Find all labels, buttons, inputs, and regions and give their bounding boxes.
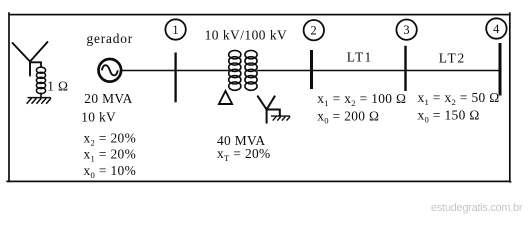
bus 2 [310,50,313,89]
wye symbol (secondary winding) [258,96,280,122]
grounding reactor coil (1 ohm) [36,67,45,94]
svg-text:estudegratis.com.br: estudegratis.com.br [431,202,523,214]
label x0 = 200 ohm (LT1) [317,108,379,125]
line LT1 wire [312,70,406,72]
svg-text:10 kV/100 kV: 10 kV/100 kV [205,28,288,43]
ground (generator neutral) [27,98,51,104]
svg-text:4: 4 [493,22,500,36]
bus 3 [404,46,406,91]
svg-text:2: 2 [311,24,318,38]
generator neutral wye symbol [13,42,48,76]
svg-text:x1 = x2 = 100 Ω: x1 = x2 = 100 Ω [317,91,406,108]
line LT2 wire [406,70,501,72]
wire reactor to ground [40,93,42,98]
transformer secondary coil [245,50,257,90]
label 10 kV [81,109,116,124]
node 1 circle [165,19,185,39]
label LT2 [439,50,466,65]
node 3 circle [396,20,416,40]
ground (transformer secondary) [271,116,290,121]
node 4 circle [486,18,506,38]
svg-text:3: 3 [403,23,410,37]
transformer primary coil [229,50,241,90]
label gerador [87,31,134,46]
node 2 circle [304,20,324,40]
generator source circle [99,59,122,82]
svg-text:10 kV: 10 kV [81,109,116,124]
label xT = 20% (transformer) [217,146,271,163]
wire generator to transformer primary [121,70,229,72]
svg-text:LT2: LT2 [439,50,466,65]
bus 1 [174,53,176,103]
label 40 MVA (transformer) [217,133,265,148]
svg-text:1: 1 [172,23,179,37]
label 20 MVA [84,91,132,106]
label x1 = 20% (generator) [84,147,137,164]
label 10 kV/100 kV [205,28,288,43]
bus 4 [499,43,502,96]
svg-text:LT1: LT1 [347,50,373,65]
wire transformer secondary to bus 2 [257,70,311,72]
label LT1 [347,50,373,65]
label x0 = 150 ohm (LT2) [418,107,480,124]
label x1 = x2 = 50 ohm (LT2) [418,90,500,107]
svg-text:gerador: gerador [87,31,134,46]
label x1 = x2 = 100 ohm (LT1) [317,91,406,108]
label x0 = 10% (generator) [84,163,137,180]
watermark estudegratis.com.br [431,202,523,214]
svg-text:1 Ω: 1 Ω [47,78,68,93]
label x2 = 20% (generator) [84,130,137,147]
svg-text:x1 = x2 = 50 Ω: x1 = x2 = 50 Ω [418,90,500,107]
svg-text:20 MVA: 20 MVA [84,91,132,106]
label 1 ohm [47,78,68,93]
wire neutral to grounding reactor [30,62,41,67]
delta symbol (primary winding) [219,91,232,104]
